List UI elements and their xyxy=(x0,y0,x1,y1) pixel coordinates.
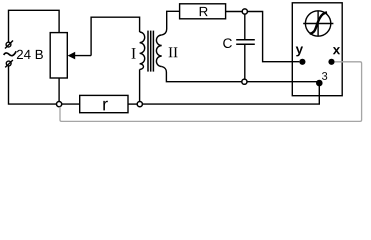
potentiometer R1 body xyxy=(50,33,67,78)
screen horizontal axis xyxy=(303,23,333,25)
screen trace curve xyxy=(310,12,327,33)
resistor R body xyxy=(180,4,226,19)
transformer T1 secondary winding II xyxy=(156,35,161,67)
AC tilde symbol xyxy=(4,51,17,55)
node open circle top xyxy=(242,9,247,14)
wire wiper to transformer primary xyxy=(91,17,140,55)
label 24 V xyxy=(17,50,43,59)
oscilloscope screen xyxy=(305,11,330,36)
wire potentiometer bottom lead xyxy=(58,78,60,102)
wire secondary bottom lead xyxy=(162,67,242,82)
wire secondary top lead to R xyxy=(162,11,180,35)
terminal dot 3 (ground node) xyxy=(316,80,323,87)
label 3 xyxy=(322,72,327,80)
screen vertical axis xyxy=(317,11,319,36)
terminal XT2 xyxy=(5,60,13,67)
label x xyxy=(333,47,340,54)
terminal dot x xyxy=(328,59,334,65)
resistor r body xyxy=(80,95,128,112)
oscilloscope body xyxy=(292,3,342,96)
label y xyxy=(296,46,303,56)
terminal XT1 xyxy=(5,41,13,49)
node junction primary-bottom xyxy=(137,102,142,107)
node junction pot-bottom xyxy=(57,102,62,107)
terminal dot y xyxy=(299,59,305,65)
label I xyxy=(132,48,136,58)
wire r to junction xyxy=(128,103,137,105)
wire node to scope-y branch xyxy=(247,12,299,62)
gray wire to x input xyxy=(60,62,362,122)
wire left bottom from terminal to bottom rail xyxy=(9,66,57,104)
transformer T1 primary winding I xyxy=(140,32,145,69)
potentiometer wiper arrow xyxy=(68,52,92,60)
wire R to node xyxy=(226,11,243,13)
capacitor C1 plates xyxy=(236,40,255,45)
node junction cap-bottom xyxy=(242,79,247,84)
wire bottom rail mid xyxy=(62,103,80,105)
capacitor C1 top lead xyxy=(244,14,246,39)
capacitor C1 bottom lead xyxy=(244,45,246,79)
label r xyxy=(103,101,108,111)
wire secondary bottom to ground dot xyxy=(247,81,319,83)
transformer core xyxy=(148,31,153,72)
wire primary bottom lead xyxy=(139,69,141,101)
wire ground dot down to bottom rail xyxy=(142,85,319,104)
label R xyxy=(200,7,208,16)
label C xyxy=(223,38,232,48)
label II xyxy=(169,47,178,57)
wire top rail from source to potentiometer xyxy=(9,10,60,42)
